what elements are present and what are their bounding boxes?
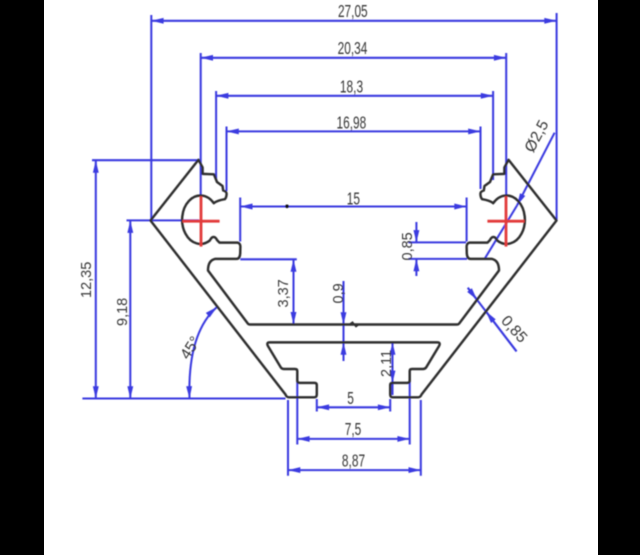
45 degree arc (189, 307, 217, 399)
svg-text:9,18: 9,18 (115, 298, 131, 326)
ext line left of 15 (239, 198, 241, 242)
dim 0,85 right lip upper arrow (415, 222, 417, 242)
left letterbox bar (0, 0, 44, 555)
svg-text:0,9: 0,9 (331, 283, 347, 303)
dim 0,9 lower arrow (342, 342, 344, 361)
svg-text:18,3: 18,3 (340, 77, 363, 97)
artifact dot on 15 dim line (285, 205, 289, 209)
ext line left of 18,3 (215, 91, 217, 180)
svg-text:27,05: 27,05 (338, 1, 368, 21)
center mark left (red cross) (182, 196, 524, 246)
aluminium profile cross-section (151, 160, 557, 397)
dim line 5 (317, 406, 390, 408)
diameter leader upper segment (517, 133, 555, 206)
dim line 15 (240, 205, 466, 207)
dim 0,85 wall leader line (468, 288, 517, 352)
dim line 16,98 (227, 130, 481, 132)
dim line 2,11 (391, 342, 393, 383)
ext line right of 16,98 (479, 127, 481, 190)
svg-text:2,11: 2,11 (379, 350, 395, 377)
ext line left of 8,87 (287, 400, 289, 476)
diameter leader lower segment (485, 206, 517, 259)
dim line 3,37 (292, 260, 294, 325)
top ext line of 9,18 (127, 219, 200, 221)
top ext line of 12,35 (92, 159, 198, 161)
dim 0,9 upper arrow (342, 281, 344, 325)
center mark right (red cross) (487, 220, 524, 223)
dim line 20,34 (201, 57, 507, 59)
svg-text:5: 5 (347, 389, 354, 409)
dim line 7,5 (297, 438, 409, 440)
dim line 9,18 (129, 221, 131, 399)
dim line 18,3 (216, 95, 493, 97)
ext line right of 5 (389, 399, 391, 412)
ext line left of 16,98 (225, 127, 227, 192)
bottom ext line (ground line) (82, 397, 285, 399)
svg-text:8,87: 8,87 (342, 451, 365, 471)
svg-text:15: 15 (347, 189, 360, 209)
ext line right of 20,34 (505, 53, 507, 197)
ext line left of 5 (316, 399, 318, 412)
ext line right of 15 (466, 198, 468, 242)
dim line 12,35 (95, 161, 97, 399)
dim 0,85 wall arrow 2 (486, 311, 517, 351)
svg-text:16,98: 16,98 (337, 113, 367, 133)
ext line right of 18,3 (492, 91, 494, 180)
svg-text:0,85: 0,85 (400, 232, 416, 260)
ext line left of 20,34 (200, 53, 202, 197)
svg-text:7,5: 7,5 (345, 420, 362, 440)
right letterbox bar (598, 0, 640, 555)
dim 0,9 middle (342, 325, 344, 343)
dim 2,11 tail (391, 383, 393, 395)
dim line 8,87 (288, 469, 421, 471)
dim 0,85 right lip lower arrow (415, 259, 417, 276)
dim 0,85 wall arrow 1 (468, 288, 477, 300)
ext line right of 27,05 (556, 13, 558, 220)
svg-text:20,34: 20,34 (338, 39, 368, 59)
ext line of 3,37 (left lip underside) (240, 258, 296, 260)
dim line 27,05 (151, 20, 556, 22)
ext line right of 8,87 (420, 400, 422, 476)
svg-text:12,35: 12,35 (79, 262, 95, 298)
ext line right lip underside (0,85) (409, 258, 468, 260)
ext line right lip top (0,85) (409, 241, 467, 243)
ext line left of 27,05 (150, 15, 152, 220)
ext line left of 7,5 (296, 374, 298, 445)
ext line right of 7,5 (409, 371, 411, 445)
break mark on floor line (350, 322, 360, 326)
svg-text:3,37: 3,37 (276, 279, 292, 307)
